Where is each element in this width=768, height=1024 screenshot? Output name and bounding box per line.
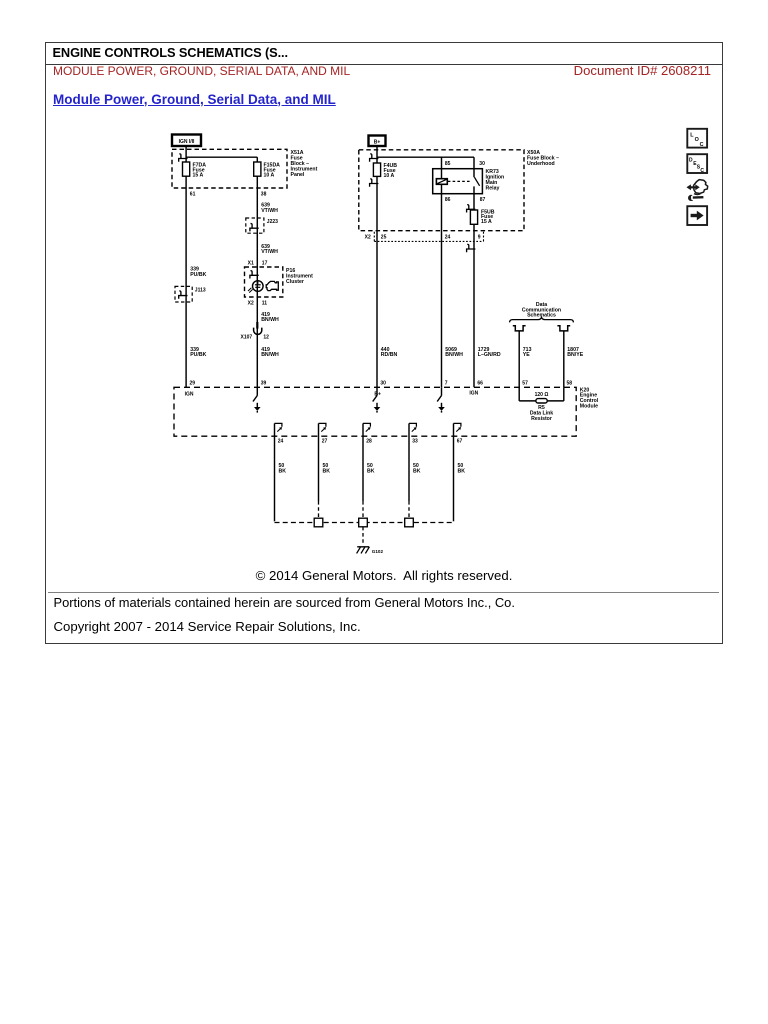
terminal inside P16 (250, 271, 259, 279)
ground wire 50 BK #5 (454, 436, 466, 521)
svg-text:24: 24 (278, 438, 284, 444)
wire label 419 BN/WH (upper) (261, 312, 279, 323)
terminal below X2 pin 9 (467, 244, 476, 252)
off-page connector (serial data 1807) (557, 326, 570, 331)
relay switch contact (474, 169, 480, 194)
wire B+ feed (vertical to pin 30) (376, 146, 378, 387)
splice connector J113 (175, 286, 192, 302)
svg-text:X2: X2 (248, 300, 254, 306)
svg-text:87: 87 (480, 197, 486, 203)
pin 39 (261, 380, 267, 386)
svg-text:66: 66 (477, 380, 483, 386)
wire label 339 PU/BK (lower) (190, 347, 206, 358)
power feed IGN I/II (172, 135, 201, 147)
splice node on ground bus (wire 27) (314, 518, 323, 527)
relay pin 85 label (445, 161, 451, 167)
off-page connector (serial data 713) (513, 326, 526, 331)
svg-text:Module: Module (580, 404, 598, 410)
net IGN at pin 29 (185, 391, 194, 397)
svg-text:RD/BN: RD/BN (381, 352, 398, 358)
net B+ at pin 30 (374, 391, 381, 397)
pin 57 (522, 380, 528, 386)
svg-text:61: 61 (190, 191, 196, 197)
svg-text:24: 24 (445, 234, 451, 240)
wire label 339 PU/BK (upper) (190, 267, 206, 278)
ECM K20 dashed box (174, 387, 576, 436)
svg-text:33: 33 (412, 438, 418, 444)
svg-text:J113: J113 (195, 288, 206, 294)
wire relay 87 to pin 66 (473, 194, 475, 388)
svg-text:67: 67 (457, 438, 463, 444)
svg-text:58: 58 (567, 380, 573, 386)
svg-text:57: 57 (522, 380, 528, 386)
wire relay 86 to pin 7 (441, 194, 443, 388)
chassis ground G102 (357, 547, 384, 554)
svg-text:J223: J223 (267, 219, 278, 225)
label J113 (195, 288, 206, 294)
internal ground arrow below pin 30 (373, 387, 381, 412)
svg-text:C: C (700, 168, 704, 174)
icon wiring pinout (arrow into connector with wrench) (687, 180, 708, 201)
terminal above F5UB (467, 205, 476, 213)
svg-text:Panel: Panel (291, 172, 305, 178)
svg-text:Resistor: Resistor (531, 416, 552, 422)
connector X1 pin 17 (248, 260, 268, 266)
bus wire from IGN feed to F15DA (186, 157, 257, 162)
fuse F4UB 10A (373, 163, 397, 179)
svg-text:BN/WH: BN/WH (261, 352, 279, 358)
driver output pin 27 (319, 423, 328, 444)
pin 38 (261, 191, 267, 197)
svg-text:27: 27 (322, 438, 328, 444)
relay actuation dashed link (448, 180, 471, 182)
label P16 Instrument Cluster (286, 268, 313, 285)
wire label 5069 BN/WH (445, 347, 463, 358)
connector X2 pin 11 (248, 300, 268, 306)
relay pin 86 label (445, 197, 451, 203)
svg-text:O: O (695, 137, 699, 143)
wire label 419 BN/WH (lower) (261, 347, 279, 358)
icon next arrow button (687, 206, 707, 225)
svg-text:120 Ω: 120 Ω (535, 392, 549, 398)
svg-text:PU/BK: PU/BK (190, 352, 206, 358)
svg-text:PU/BK: PU/BK (190, 272, 206, 278)
label KR73 Ignition Main Relay (486, 169, 505, 192)
svg-text:25: 25 (381, 234, 387, 240)
fuse F5UB 15A (470, 209, 494, 225)
driver output pin 33 (409, 423, 418, 444)
svg-text:X2: X2 (365, 234, 371, 240)
ground wire 50 BK #2 (319, 436, 331, 518)
wire pin 57 to resistor (519, 387, 536, 401)
splice connector J223 (246, 218, 264, 233)
MIL check-engine lamp icon (266, 281, 278, 290)
svg-text:15 A: 15 A (193, 172, 204, 178)
X2 pin 9 (478, 234, 481, 240)
ground bus dashed (275, 522, 454, 524)
power feed B+ (369, 136, 386, 147)
internal ground arrow below pin 39 (253, 387, 261, 412)
svg-text:12: 12 (263, 334, 269, 340)
wire stub to ground G102 (362, 527, 364, 545)
relay pin 87 label (480, 197, 486, 203)
svg-text:X1: X1 (248, 260, 254, 266)
svg-text:X107: X107 (241, 334, 253, 340)
terminal at B+ entry (370, 154, 379, 162)
svg-text:11: 11 (262, 300, 268, 306)
ground wire 50 BK #1 (275, 436, 287, 521)
pin 61 (190, 191, 196, 197)
label Data Communication Schematics (522, 302, 561, 319)
fuse block X51A dashed box (172, 149, 287, 188)
svg-text:BK: BK (279, 468, 287, 474)
svg-text:17: 17 (262, 260, 268, 266)
label X51A Fuse Block - Instrument Panel (291, 150, 318, 178)
svg-text:29: 29 (190, 380, 196, 386)
svg-text:G102: G102 (372, 549, 384, 554)
svg-text:Relay: Relay (486, 185, 500, 191)
label X50A Fuse Block - Underhood (527, 150, 559, 167)
wire F15DA output (vertical to pin 39) (256, 176, 258, 387)
relay coil (436, 169, 447, 194)
ground wire 50 BK #4 (409, 436, 421, 518)
branch wire to relay pin 30 (473, 157, 475, 169)
svg-text:IGN: IGN (469, 390, 478, 396)
svg-text:IGN: IGN (185, 391, 194, 397)
svg-text:Underhood: Underhood (527, 161, 555, 167)
svg-text:9: 9 (478, 234, 481, 240)
indicator bulb in cluster (248, 281, 263, 293)
svg-text:BN/WH: BN/WH (445, 352, 463, 358)
svg-text:BK: BK (413, 468, 421, 474)
wire label 440 RD/BN (381, 347, 398, 358)
relay KR73 box (433, 169, 483, 194)
svg-text:IGN I/II: IGN I/II (179, 139, 195, 145)
wire serial data to pin 58 (563, 331, 565, 387)
relay pin 30 label (479, 161, 485, 167)
brace to data communication schematics (510, 317, 574, 322)
fuse block X50A dashed box (359, 150, 524, 231)
pin 30 (380, 380, 386, 386)
svg-text:YE: YE (523, 352, 530, 358)
svg-text:10 A: 10 A (384, 173, 395, 179)
inline connector X2 (underhood) (365, 232, 484, 242)
svg-text:10 A: 10 A (264, 172, 275, 178)
icon DESC button (687, 154, 707, 174)
pin 29 (190, 380, 196, 386)
terminal at IGN feed entry (179, 154, 188, 162)
label J223 (267, 219, 278, 225)
svg-text:39: 39 (261, 380, 267, 386)
resistor R5 (536, 399, 547, 403)
wire label 639 VT/WH (lower) (261, 244, 278, 255)
icon LOC button (687, 129, 707, 148)
svg-text:VT/WH: VT/WH (261, 208, 278, 214)
pin 66 (477, 380, 483, 386)
svg-text:38: 38 (261, 191, 267, 197)
driver output pin 28 (363, 423, 372, 444)
label K20 Engine Control Module (580, 387, 599, 409)
net IGN at pin 66 (469, 390, 478, 396)
instrument cluster P16 dashed box (245, 267, 283, 297)
svg-text:86: 86 (445, 197, 451, 203)
svg-text:BN/WH: BN/WH (261, 317, 279, 323)
svg-text:L–GN/RD: L–GN/RD (478, 352, 501, 358)
svg-text:BK: BK (458, 468, 466, 474)
branch wire to relay pin 85 (441, 157, 443, 169)
svg-text:B+: B+ (374, 139, 381, 145)
svg-text:28: 28 (366, 438, 372, 444)
svg-text:VT/WH: VT/WH (261, 249, 278, 255)
svg-text:85: 85 (445, 161, 451, 167)
X2 pin 25 (381, 234, 387, 240)
ground wire 50 BK #3 (363, 436, 375, 518)
wire pin 58 to resistor (547, 387, 564, 401)
wire label 1807 BN/YE (567, 347, 583, 358)
bus wire from B+ to relay (377, 156, 474, 158)
fuse F7DA 15A (183, 162, 207, 178)
svg-text:30: 30 (479, 161, 485, 167)
svg-text:C: C (700, 142, 704, 148)
fuse F15DA 10A (254, 162, 280, 178)
value 120 ohm (535, 392, 549, 398)
driver output pin 24 (275, 423, 284, 444)
wire label 713 YE (523, 347, 532, 358)
pin 58 (567, 380, 573, 386)
svg-text:15 A: 15 A (481, 219, 492, 225)
X2 pin 24 (445, 234, 451, 240)
splice node on ground bus (wire 33) (405, 518, 414, 527)
splice node on ground bus (wire 28) (359, 518, 368, 527)
label R5 Data Link Resistor (530, 405, 553, 422)
svg-text:BK: BK (323, 468, 331, 474)
pin 7 (445, 380, 448, 386)
svg-text:Cluster: Cluster (286, 279, 304, 285)
wire label 1729 L-GN/RD (478, 347, 501, 358)
svg-text:30: 30 (380, 380, 386, 386)
svg-text:7: 7 (445, 380, 448, 386)
wire serial data to pin 57 (518, 331, 520, 387)
wire label 639 VT/WH (upper) (261, 203, 278, 214)
svg-text:BN/YE: BN/YE (567, 352, 583, 358)
inline connector X107 pin 12 (241, 322, 270, 340)
svg-text:BK: BK (367, 468, 375, 474)
terminal below F4UB (370, 179, 379, 187)
wire IGN feed (vertical from IGN I/II to pin 29) (185, 146, 187, 387)
internal ground arrow below pin 7 (437, 387, 445, 412)
driver output pin 67 (454, 423, 463, 444)
